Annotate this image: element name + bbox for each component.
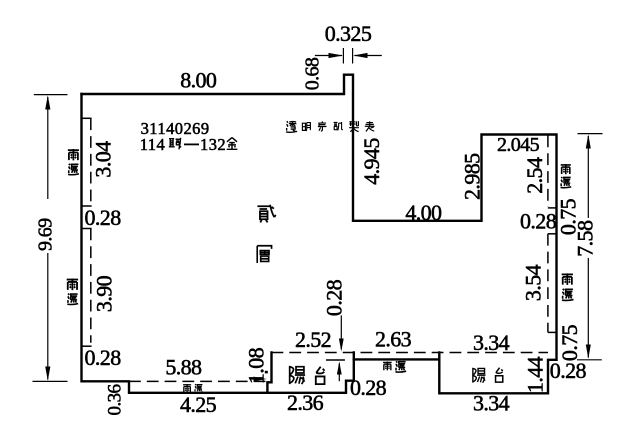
wire dim 7.58 top extension tick <box>578 133 603 135</box>
char 台 balcony2 <box>496 368 503 382</box>
wire main outline top and right <box>82 75 557 394</box>
svg-text:7.58: 7.58 <box>572 220 597 257</box>
svg-text:0.28: 0.28 <box>550 358 587 383</box>
svg-text:3.90: 3.90 <box>91 275 116 312</box>
char 遮 right lower <box>562 289 574 301</box>
char 遮 right upper <box>561 177 572 188</box>
svg-text:0.68: 0.68 <box>302 57 324 90</box>
arrowhead 1.08 right-pointing <box>254 377 267 382</box>
char 表 <box>365 121 375 131</box>
char 遮 left upper <box>68 164 79 175</box>
char 製 <box>349 121 359 132</box>
wire bottom long dashed line balconies <box>272 352 549 354</box>
arrowhead 7.58 down <box>586 345 591 359</box>
char 房 <box>318 121 327 131</box>
svg-text:5.88: 5.88 <box>165 354 202 379</box>
arrowhead 0.28 down at dashed line <box>339 339 344 352</box>
char 陽 balcony2 <box>473 368 486 383</box>
svg-text:8.00: 8.00 <box>180 68 217 93</box>
wire eave solid line between balconies <box>354 358 440 360</box>
char 金 <box>227 138 238 150</box>
wire balcony1 right edge, bottom strip, left wall <box>82 94 354 393</box>
wire right wall tick 3 <box>548 331 557 333</box>
char 雨 right upper <box>561 164 571 174</box>
wire dim 7.58 vertical line lower <box>587 258 589 358</box>
wire left wall tick 4 <box>82 345 92 347</box>
svg-text:0.75: 0.75 <box>557 324 582 361</box>
svg-text:0.28: 0.28 <box>520 209 557 234</box>
svg-text:2.36: 2.36 <box>287 390 324 415</box>
wire right wall tick 2 <box>548 233 557 235</box>
svg-text:3.34: 3.34 <box>473 330 510 355</box>
wire dim 9.69 top extension tick <box>34 94 68 96</box>
wire left wall tick 1 <box>82 117 92 119</box>
svg-text:2.045: 2.045 <box>497 134 540 156</box>
svg-text:0.36: 0.36 <box>105 384 126 415</box>
svg-text:3.34: 3.34 <box>473 391 510 416</box>
char 明 <box>302 123 310 131</box>
svg-text:2.54: 2.54 <box>522 157 547 194</box>
wire left eave dashed lower <box>90 229 92 343</box>
svg-text:3.04: 3.04 <box>90 141 115 178</box>
svg-text:2.63: 2.63 <box>375 327 412 352</box>
wire right eave dashed lower <box>547 234 549 333</box>
wire dim 7.58 bottom extension tick <box>577 359 602 361</box>
wire dim 0.28 balcony leader upper <box>340 315 342 349</box>
wire balcony1 inner tick <box>326 359 345 361</box>
char 雨 bottom strip <box>183 384 191 392</box>
char 透 <box>286 121 297 132</box>
wire dim 0.325 left line <box>315 55 342 57</box>
svg-text:3.54: 3.54 <box>521 264 546 301</box>
svg-text:114: 114 <box>140 135 166 154</box>
wire right wall tick 1 <box>548 207 557 209</box>
char 職 <box>169 138 181 149</box>
svg-text:0.28: 0.28 <box>85 345 122 370</box>
char 訊 <box>334 122 343 130</box>
wire right eave dashed upper <box>547 136 549 208</box>
char 遮 between balconies <box>395 361 406 372</box>
char 遮 bottom strip <box>195 384 203 392</box>
arrowhead 7.58 up <box>586 134 591 148</box>
arrowhead 9.69 up <box>45 95 50 109</box>
svg-text:4.25: 4.25 <box>180 392 217 417</box>
wire balcony1 left step <box>267 352 271 392</box>
dash of 114職-132金 <box>184 144 199 146</box>
wire left wall tick 3 <box>82 228 92 230</box>
wire left eave dashed upper <box>90 118 92 205</box>
svg-text:4.00: 4.00 <box>405 200 442 225</box>
svg-text:2.52: 2.52 <box>295 327 331 352</box>
svg-text:1.08: 1.08 <box>243 347 268 384</box>
char 遮 left lower <box>67 294 78 305</box>
wire dim 0.325 tick right <box>352 48 354 64</box>
svg-text:0.28: 0.28 <box>350 375 387 400</box>
svg-text:4.945: 4.945 <box>359 138 384 185</box>
wire dim 0.325 right line <box>355 55 382 57</box>
svg-text:0.28: 0.28 <box>85 205 122 230</box>
tick small mark above 1.08 arrow <box>265 371 268 374</box>
arrowhead 0.325 right-pointing <box>329 53 344 58</box>
svg-text:0.325: 0.325 <box>325 21 372 46</box>
svg-text:2.985: 2.985 <box>459 153 484 200</box>
wire dim 9.69 vertical line upper <box>47 97 49 199</box>
char 陽 balcony1 <box>290 366 305 384</box>
char 台 balcony1 <box>316 367 325 384</box>
svg-text:1.44: 1.44 <box>523 356 548 393</box>
wire dim 7.58 vertical line upper <box>587 136 589 218</box>
char 雨 left lower <box>67 278 78 290</box>
wire dim 0.325 tick left <box>342 48 344 64</box>
arrowhead 0.325 left-pointing <box>353 53 367 58</box>
wire bottom-left dashed line <box>129 380 267 382</box>
arrowhead 9.69 down <box>45 367 50 381</box>
wire dim 9.69 bottom extension tick <box>33 380 68 382</box>
wire dim 1.08 arrow line <box>251 378 263 380</box>
wire dim 9.69 vertical line lower <box>47 253 49 380</box>
char 雨 between balconies <box>383 362 392 371</box>
char 雨 left upper <box>68 149 79 160</box>
char 層 <box>257 246 271 263</box>
arrowhead 0.28 up at tick <box>337 361 342 374</box>
svg-text:132: 132 <box>200 135 226 154</box>
char 貳 <box>257 205 275 223</box>
wire left wall tick 2 <box>82 205 92 207</box>
wire dim 0.28 balcony leader lower <box>338 364 340 382</box>
char 雨 right lower <box>562 273 573 285</box>
svg-text:0.28: 0.28 <box>321 279 346 316</box>
svg-text:9.69: 9.69 <box>35 218 57 251</box>
